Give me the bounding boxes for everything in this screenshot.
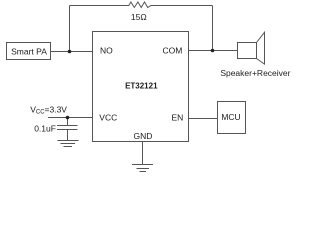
svg-text:VCC: VCC — [99, 113, 117, 123]
svg-text:EN: EN — [171, 113, 183, 123]
svg-text:GND: GND — [134, 131, 153, 141]
svg-text:0.1uF: 0.1uF — [34, 124, 56, 134]
svg-text:ET32121: ET32121 — [125, 81, 158, 90]
svg-text:Smart PA: Smart PA — [11, 47, 47, 57]
svg-text:VCC=3.3V: VCC=3.3V — [30, 104, 67, 115]
svg-text:15Ω: 15Ω — [131, 12, 147, 22]
svg-text:MCU: MCU — [221, 112, 240, 122]
svg-text:NO: NO — [100, 45, 113, 55]
svg-text:COM: COM — [162, 45, 182, 55]
svg-text:Speaker+Receiver: Speaker+Receiver — [220, 68, 290, 78]
